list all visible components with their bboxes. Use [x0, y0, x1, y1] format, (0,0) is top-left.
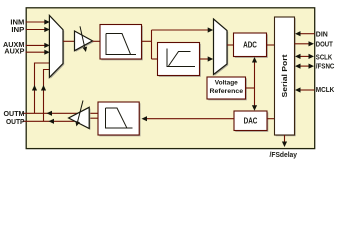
wire DAC output to LPF2 — [146, 118, 234, 120]
wire SCLK bidirectional — [299, 55, 310, 57]
svg-text:Serial Port: Serial Port — [282, 54, 289, 98]
input mux MUX1 — [49, 15, 63, 77]
svg-text:AUXP: AUXP — [4, 48, 24, 55]
input mux MUX1 shadow — [51, 17, 65, 79]
wire junction vertical — [151, 30, 153, 59]
svg-text:SCLK: SCLK — [316, 54, 332, 61]
wire DIN into serial port — [299, 33, 315, 35]
wire OUTP from amp out to pin — [23, 120, 76, 122]
svg-text:MCLK: MCLK — [316, 87, 335, 94]
DAC block — [234, 111, 267, 131]
wire DOUT out of serial port — [295, 43, 310, 45]
op-amp PGA A1 shadow — [76, 32, 94, 52]
wire feedback A from OUTM line up into input mux — [35, 63, 51, 113]
serial port block shadow — [276, 18, 296, 136]
wire OUTM from LPF2/amp out to pin — [23, 112, 99, 114]
svg-text:OUTP: OUTP — [6, 119, 25, 126]
svg-text:DIN: DIN — [316, 31, 328, 38]
low-pass filter block LPF2 — [98, 102, 139, 135]
LPF2 response glyph — [106, 108, 133, 128]
wire AUXP to input mux — [26, 51, 46, 53]
svg-text:ADC: ADC — [243, 41, 257, 50]
wire vref to vertical feed — [246, 87, 255, 89]
wire A1 output to anti-alias filter — [93, 40, 101, 42]
wire serial port FS delay output — [284, 135, 286, 143]
wire MUX2 to ADC — [227, 44, 234, 46]
wire junction to limiter — [152, 58, 158, 60]
low-pass filter block LPF1 (shadow) — [101, 26, 143, 61]
serial port block — [275, 17, 295, 135]
svg-text:OUTM: OUTM — [4, 111, 25, 118]
op-amp output amp A2 — [69, 107, 90, 128]
svg-text:/FSNC: /FSNC — [316, 64, 335, 71]
svg-text:DOUT: DOUT — [316, 41, 334, 48]
wire AUXM to input mux — [26, 44, 46, 46]
limiter block (shadow) — [159, 44, 201, 77]
gain-control arrow through A1 — [80, 26, 85, 47]
ADC block (shadow) — [235, 34, 268, 58]
voltage reference block — [207, 77, 246, 99]
ADC input mux MUX2 — [214, 19, 228, 75]
op-amp output amp A2 shadow — [70, 109, 91, 130]
wire LPF1 output to junction — [142, 40, 152, 42]
wire limiter output to MUX2 — [200, 58, 209, 60]
wire mux1 output to PGA — [63, 40, 75, 42]
DAC block (shadow) — [235, 112, 268, 132]
wire MCLK into serial port — [299, 89, 315, 91]
wire INP to input mux — [26, 29, 46, 31]
limiter response glyph — [167, 49, 195, 67]
svg-text:INP: INP — [11, 27, 24, 34]
wire vref vertical to ADC and DAC — [254, 60, 256, 109]
svg-text:/FSdelay: /FSdelay — [270, 152, 298, 159]
wire INM to input mux — [26, 21, 46, 23]
voltage reference block (shadow) — [208, 78, 247, 100]
svg-text:Voltage: Voltage — [215, 80, 238, 87]
svg-text:Reference: Reference — [210, 88, 244, 95]
LPF1 response glyph — [106, 34, 136, 55]
wire ADC to serial port — [267, 44, 275, 46]
wire /FSNC bidirectional — [299, 65, 310, 67]
wire amp2 input from LPF2 — [89, 117, 98, 119]
ADC block — [234, 33, 267, 57]
svg-text:DAC: DAC — [244, 116, 258, 125]
wire feedback B from OUTP line up into input mux — [44, 70, 59, 122]
op-amp PGA A1 (input programmable gain amp) — [75, 31, 93, 51]
limiter block — [158, 43, 200, 76]
outer block boundary — [26, 8, 315, 149]
svg-text:INM: INM — [10, 20, 24, 27]
wire bypass to MUX2 — [152, 29, 209, 31]
low-pass filter block LPF1 — [100, 25, 142, 60]
gain-control arrow through A2 — [78, 101, 84, 123]
ADC input mux MUX2 shadow — [215, 20, 229, 75]
wire serial port to DAC — [267, 118, 275, 120]
low-pass filter block LPF2 (shadow) — [99, 103, 140, 136]
